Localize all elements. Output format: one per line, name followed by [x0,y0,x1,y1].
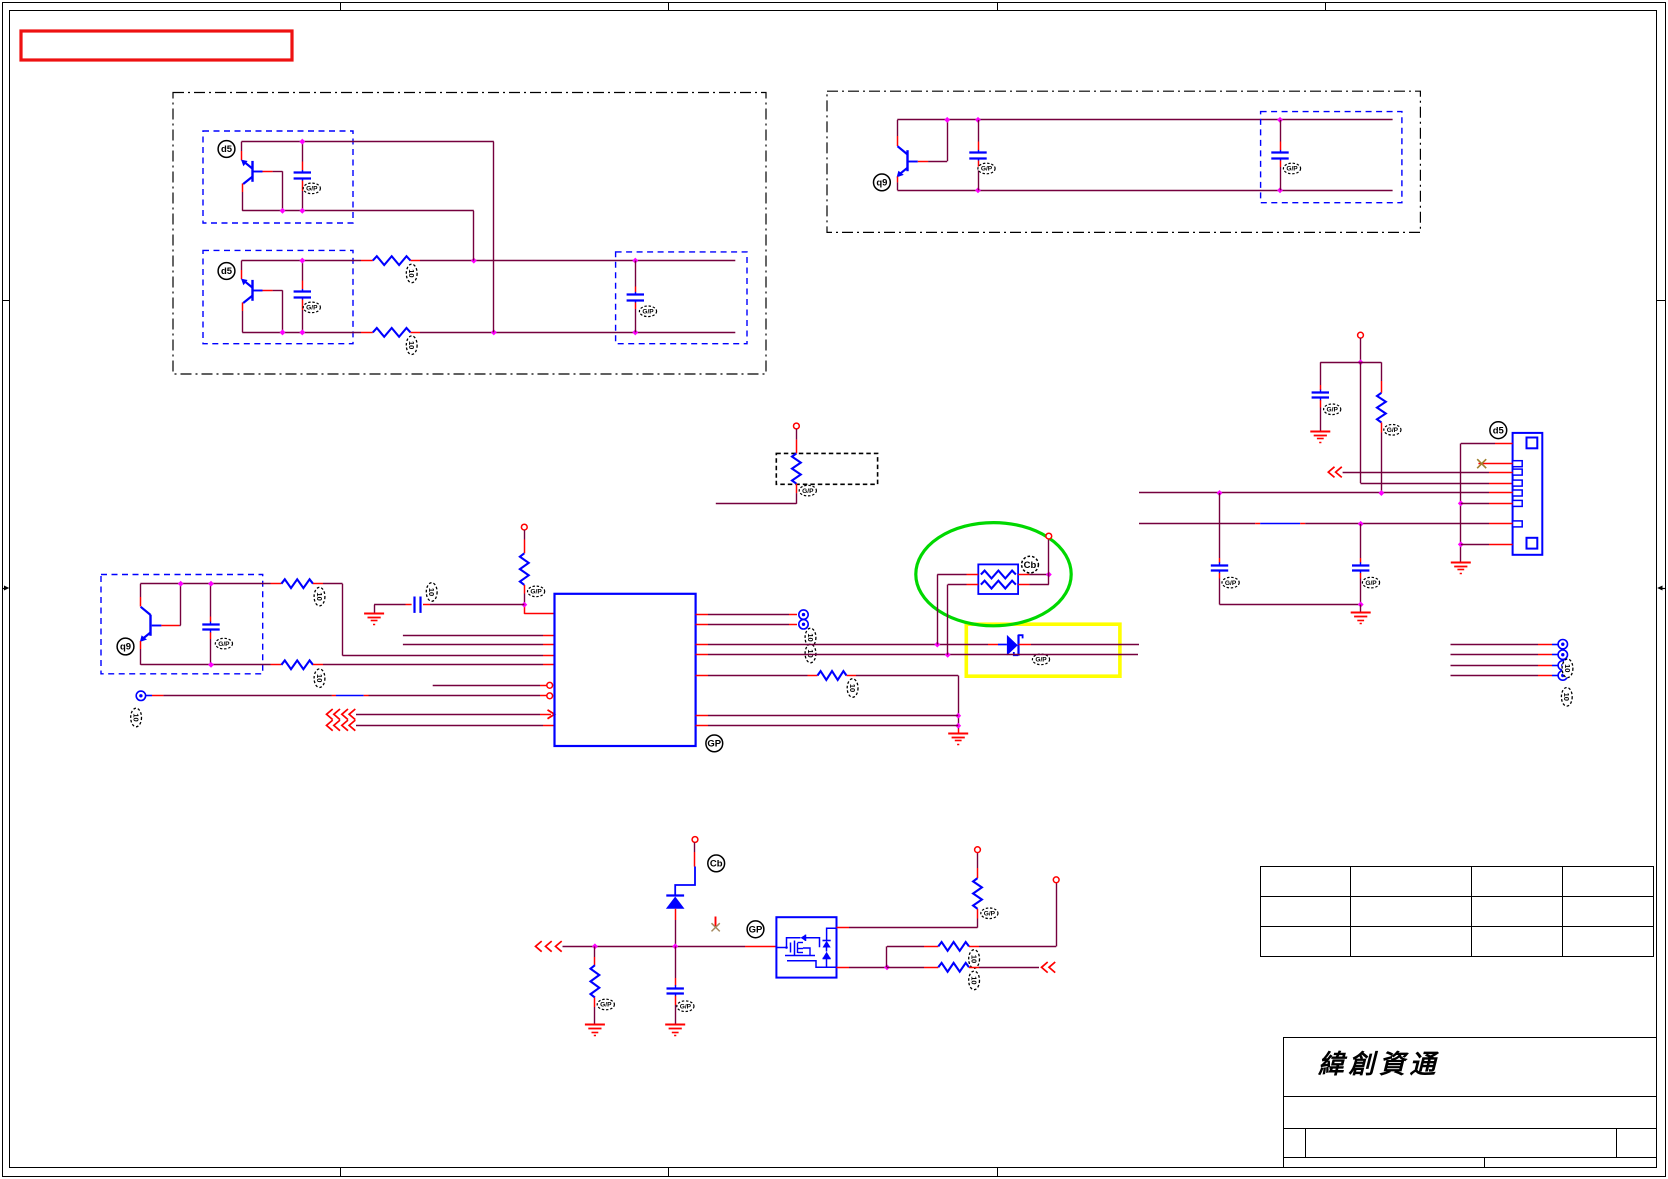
svg-text:G/P: G/P [680,1003,692,1010]
wire R3 down and left [796,484,798,493]
resistor R7 [818,671,847,680]
junction [280,329,286,335]
designator Q1 [218,141,235,158]
svg-text:10: 10 [315,592,324,600]
wire CN1 pin row2 [1343,472,1489,474]
designator Q4 [117,638,134,655]
junction [945,652,951,658]
decoupling network: ground, capacitor C7h [374,605,376,613]
svg-text:10: 10 [848,684,857,692]
svg-text:G/P: G/P [642,309,654,316]
wire IC pin2 stub [403,635,543,637]
wire RN1 pin1 left [967,574,979,576]
terminal blue 3 [1558,661,1567,670]
wire Q2 emitter rail with resistor R2 [242,332,361,334]
label R11 value [969,950,980,969]
resistor R3 [792,453,801,483]
capacitor C7h [413,597,415,613]
terminal blue 4 [1558,671,1567,680]
connector CN1 mount pad bottom [1527,538,1538,549]
wire D top rail with resistor R4 [140,583,270,585]
svg-text:G/P: G/P [306,186,318,193]
border zone tick right [1657,300,1666,302]
wire RN1 pin2 left [967,584,979,586]
wire Q1 bottom rail [242,210,473,212]
label R9 value [597,999,614,1010]
wire IC out pin b to terminal [696,624,708,626]
junction [1277,187,1283,193]
ground below IC right [948,733,968,735]
label R2 value [406,336,417,355]
junction [208,581,214,587]
terminal VCC7 [1053,877,1059,883]
terminal blue 1 [1558,640,1567,649]
wire IC out pin f [696,715,708,717]
svg-text:10: 10 [407,341,416,349]
junction [1358,602,1364,608]
junction [521,602,527,608]
wire IC pin3 stub [403,644,543,646]
resistor R6 [520,553,529,585]
wire IC pin9 [356,725,543,727]
no-connect red stub with X mark [715,917,717,928]
wire down to ground rail [958,676,960,730]
svg-text:GP: GP [749,925,763,936]
svg-text:10: 10 [970,955,979,963]
svg-text:10: 10 [407,269,416,277]
svg-text:GP: GP [707,739,721,750]
terminal VCC3 [1046,533,1052,539]
wire RN1 pin2 right [1018,584,1029,586]
terminal blue 2 [1558,650,1567,659]
transistor Q1 [241,142,243,151]
resistor R4 [281,579,313,588]
junction [1358,359,1364,365]
ground below C10e [1360,605,1362,613]
power terminal VCC2 above IC [521,524,527,530]
designator Q3 [874,174,891,191]
resistor R10 [973,878,982,909]
svg-text:10: 10 [806,649,815,657]
capacitor C4 [978,120,980,142]
no-connect circle IC pin6 [547,682,553,688]
wire D bottom rail with resistor R5 to IC [141,664,271,666]
border zone tick left [2,300,10,302]
junction [632,329,638,335]
label C3 value [639,306,656,317]
wire gnd to C7h [374,604,405,606]
wire branch up and right with resistor R11 [886,946,888,967]
option box (black dashed) [776,453,877,484]
wire bottom rail B [898,190,1393,192]
svg-text:G/P: G/P [1327,407,1339,414]
wire up to resistor R10 [977,919,979,928]
label C11f value [677,1001,694,1012]
wire VCC4 down [1360,338,1362,362]
capacitor C10e [1360,524,1362,558]
resistor R1 [373,256,411,265]
wire to terminal 4 [1451,675,1539,677]
transistor Q2 [241,261,243,270]
border centre arrow right [1657,586,1662,591]
off-page chevrons main input [536,941,542,952]
svg-text:10: 10 [806,633,815,641]
svg-text:G/P: G/P [984,911,996,918]
label R6 value [528,586,545,597]
label C9e value [1222,577,1239,588]
terminal TA blue [799,610,808,619]
wire link box Q1 top to rail [493,142,495,333]
wire RN1 pin1 right to terminal [1018,574,1029,576]
wire lower output with resistor R12 [887,967,924,969]
wire VCC4 trunk to connector pin [1360,362,1362,483]
svg-text:d5: d5 [221,266,233,277]
wire to terminal 1 [1451,644,1539,646]
sub-circuit box Q2 (blue dashed) [203,250,353,343]
resistor R5 [281,660,313,669]
function block outline (dash-dot) top-right [827,91,1420,232]
label R7 value [847,679,858,698]
junction [1458,541,1464,547]
border zone ticks bottom [340,1168,342,1177]
wire CN1 ground trunk [1460,444,1462,563]
ground [364,613,384,615]
junction [934,642,940,648]
resistor R2 [373,328,411,337]
power terminal VCC4 [1358,332,1364,338]
label T1 [131,708,142,727]
wire CN1 pin row7 [1461,544,1489,546]
capacitor C6 [210,584,212,617]
svg-text:Cb: Cb [1024,560,1037,571]
no-connect X pin [1478,463,1512,465]
connector CN1 mount pad top [1527,438,1538,449]
function block outline (dash-dot) top-left [173,93,766,375]
junction [299,258,305,264]
transistor Q4 [140,584,142,597]
junction [1046,572,1052,578]
MOSFET Q5 body [776,917,836,977]
svg-text:G/P: G/P [1365,580,1377,587]
label C2 value [303,302,320,313]
capacitor C5 [1280,120,1282,142]
schottky diode D1 [1007,635,1018,656]
wire Q1 top rail [242,141,494,143]
off-page chevrons wire IC pin8 [327,709,333,720]
wire to terminal 2 [1451,654,1539,656]
svg-text:10: 10 [1563,664,1572,672]
svg-text:Cb: Cb [710,859,723,870]
label C1 value [303,183,320,194]
junction [208,662,214,668]
svg-text:G/P: G/P [530,589,542,596]
wire CN1 pin row5 [1461,503,1489,505]
border centre arrow left [4,586,9,591]
label C8e value [1324,404,1341,415]
label TB [805,644,816,663]
wire C9e to ground rail [1220,604,1361,606]
label R4 value [314,587,325,606]
wire Q5 out lower [837,967,850,969]
svg-text:G/P: G/P [600,1002,612,1009]
resistor RN1 element 1 [981,571,1016,579]
wire R6 to junction and IC pin 1 [524,585,526,594]
label R5 value [314,669,325,688]
terminal VCC6 [975,847,981,853]
label TA [805,628,816,647]
designator CbF [708,855,725,872]
junction [672,943,678,949]
junction [592,943,598,949]
capacitor C2 [302,261,304,281]
wire CN1 top pin [1461,443,1495,445]
MOSFET Q5 internal symbol [776,947,786,949]
junction [299,329,305,335]
label C10e value [1362,577,1379,588]
label terminal group 2 [1561,688,1572,707]
wire IC pin8 with arrow [356,714,540,716]
power terminal VCC1 [794,423,800,429]
MOSFET Q5 body-diode chain [827,928,837,940]
label terminal group 1 [1562,659,1573,678]
svg-text:G/P: G/P [1035,657,1047,664]
ground below C8e [1310,431,1330,433]
junction [280,208,286,214]
label C7h value [426,583,437,602]
wire branch rail [1320,362,1381,364]
wire IC out pin e with resistor R7 [696,675,708,677]
wire Q2 collector rail with resistor R1 [242,260,362,262]
ground below R9 [585,1024,605,1026]
label R12 value [969,971,980,990]
sub-circuit box Q4 (blue dashed) [101,575,263,674]
transistor Q3 [897,120,899,136]
capacitor C8e [1320,362,1322,385]
junction [884,964,890,970]
junction [299,139,305,145]
IC U1 body [555,594,696,746]
svg-text:q9: q9 [876,178,887,189]
label C5 value [1283,163,1300,174]
designator CN1 [1490,422,1507,439]
wire Q5 out upper [837,927,850,929]
wire Q4 base to top rail [179,625,180,627]
wire VCC1 to R3 [796,429,798,440]
wire VCC5 down [694,842,696,852]
resistor R8 [1381,362,1383,381]
wire CN1 pin row6 long with blue segment [1139,523,1255,525]
revision table [1261,867,1654,957]
designator U1 [706,735,723,752]
no-connect circle IC pin7 [547,693,553,699]
wire IC out pin g [696,725,708,727]
capacitor C3 [635,261,637,287]
off-page chevrons wire IC pin9 [327,720,333,731]
junction [1458,500,1464,506]
svg-text:G/P: G/P [306,305,318,312]
wire top rail B [897,119,1392,121]
green highlight ellipse [916,523,1071,626]
terminal TB blue [799,620,808,629]
wire D rail corner down to IC pin row [342,584,344,656]
title block [1284,1038,1657,1168]
junction [955,713,961,719]
off-page chevrons CN1 pin [1328,467,1334,478]
red title highlight rectangle [21,31,292,60]
svg-text:d5: d5 [221,144,233,155]
wire Q2 base to bottom rail [273,290,283,292]
svg-text:10: 10 [1562,693,1571,701]
svg-text:G/P: G/P [218,641,230,648]
wire CN1 pin row4 long [1139,492,1489,494]
capacitor C11f [675,946,677,978]
resistor network RN1 body [978,564,1018,594]
svg-text:10: 10 [315,674,324,682]
label R1 value [406,264,417,283]
wire T1 to IC pin7 open circle [146,695,152,697]
label R10 value [981,908,998,919]
sub-circuit box C3 (blue dashed) [616,252,747,344]
svg-text:10: 10 [132,713,141,721]
svg-text:G/P: G/P [1387,427,1399,434]
junction [944,117,950,123]
label D1 value [1032,654,1049,665]
designator QF [747,921,764,938]
designator RN1 [1022,556,1039,573]
ground below C11f [665,1024,685,1026]
junction [1358,521,1364,527]
svg-text:G/P: G/P [981,166,993,173]
wire IC out pin c (diode line) [696,644,708,646]
border zone ticks top [340,2,342,11]
label C6 value [215,638,232,649]
svg-text:10: 10 [427,588,436,596]
junction [471,258,477,264]
label R8 value [1384,425,1401,436]
ground below CN1 [1451,562,1471,564]
label C4 value [978,163,995,174]
junction [299,208,305,214]
zener diode D2 [666,894,684,896]
wire link box Q1 bottom to rail [473,211,475,261]
svg-text:d5: d5 [1493,425,1505,436]
junction [975,187,981,193]
junction [632,258,638,264]
junction [491,329,497,335]
connector CN1 body [1513,433,1543,555]
off-page chevrons lower output [1042,962,1048,973]
label R3 value [799,485,816,496]
resistor R12 [938,963,969,972]
power terminal VCC5 [692,837,698,843]
zener diode D2 cathode link [675,867,695,896]
svg-text:G/P: G/P [1286,166,1298,173]
wire IC pin6 open circle [433,685,540,687]
wire VCC2 to R6 [524,530,526,540]
svg-text:q9: q9 [120,642,131,653]
wire Q3 base to top rail [928,161,947,163]
wire IC out pin d [696,654,708,656]
svg-text:緯創資通: 緯創資通 [1317,1049,1440,1079]
designator Q2 [218,263,235,280]
capacitor C9e [1219,493,1221,558]
connector CN1 pin boxes [1513,461,1523,467]
sub-circuit box Q1 (blue dashed) [203,131,353,223]
junction [1277,117,1283,123]
yellow highlight box [966,624,1120,676]
terminal T1 blue [136,691,145,700]
wire Q1 base to bottom rail [273,171,283,173]
svg-text:10: 10 [970,976,979,984]
resistor RN1 element 2 [981,581,1016,589]
wire to terminal 3 [1451,665,1539,667]
wire main input rail [563,946,746,948]
resistor R11 [938,942,969,951]
junction [955,723,961,729]
junction [178,581,184,587]
junction [975,117,981,123]
junction [1217,490,1223,496]
svg-text:G/P: G/P [802,488,814,495]
resistor R9 to ground [594,946,596,957]
svg-text:G/P: G/P [1225,580,1237,587]
sub-circuit box C5 (blue dashed) [1261,112,1402,203]
wire IC out pin a to terminal [696,614,708,616]
capacitor C1 [302,142,304,162]
junction [1378,490,1384,496]
